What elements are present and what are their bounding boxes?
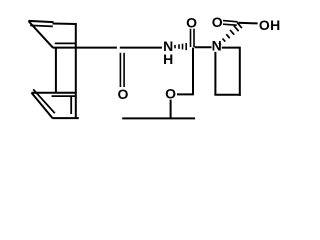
carboxyl C=O double lines	[223, 21, 238, 22]
wire H_a horizontal	[32, 92, 76, 94]
svg-text:H: H	[270, 17, 280, 33]
wire ring left edge	[214, 52, 216, 95]
wire bond to ring N	[195, 46, 212, 48]
wire bottom outer diagonal	[32, 93, 53, 118]
carbonyl C2=O double lines	[190, 29, 192, 47]
wire CH2 to O ether	[177, 93, 194, 95]
wire O ether down	[170, 100, 172, 119]
wire chain inner double line above	[55, 42, 76, 44]
wire top inner double line	[30, 25, 53, 26]
wire top edge	[28, 21, 53, 22]
wire CH2 vertical	[192, 48, 194, 95]
wire chain horizontal left	[53, 47, 117, 49]
svg-text:N: N	[212, 37, 222, 53]
svg-text:H: H	[163, 51, 173, 67]
carbonyl C1=O double lines	[119, 53, 121, 87]
wire diagonal A-V	[29, 21, 53, 47]
hash wedge 2 (ring N to carboxyl C)	[219, 23, 242, 45]
hash wedge 1 (NH to alpha C)	[174, 43, 187, 50]
svg-text:O: O	[165, 86, 176, 102]
wire H_b inner horizontal	[52, 95, 76, 97]
wire ring top edge	[222, 47, 240, 49]
svg-text:O: O	[186, 14, 197, 30]
wire chain to NH	[120, 47, 162, 49]
wire mid vertical	[55, 48, 57, 93]
wire bond C-OH	[239, 22, 258, 25]
wire inner vertical pair line	[70, 96, 72, 114]
wire ring right edge	[239, 47, 241, 96]
wire isopropyl bottom horizontal	[122, 117, 195, 119]
wire bottom-left bottom horizontal	[52, 117, 79, 119]
wire ring bottom edge	[214, 94, 240, 96]
wire bottom inner diagonal	[33, 89, 55, 113]
svg-text:O: O	[212, 14, 223, 30]
wire long right vertical	[75, 23, 77, 118]
svg-text:O: O	[259, 17, 270, 33]
svg-text:O: O	[118, 86, 129, 102]
